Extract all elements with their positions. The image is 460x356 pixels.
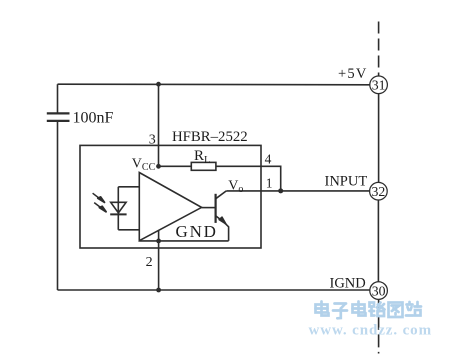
junction dots <box>156 82 283 293</box>
svg-text:GND: GND <box>176 222 218 241</box>
photodiode D1 bottom bracket <box>118 229 139 231</box>
capacitor C1 100nF <box>47 113 70 121</box>
wire top rail <box>58 83 370 86</box>
op-amp U1 body box HFBR-2522 <box>80 145 261 248</box>
char dian 2 <box>353 302 366 316</box>
wire left branch upper <box>57 84 59 113</box>
op-amp U1 triangle <box>139 173 201 241</box>
wire Vo/INPUT <box>226 190 369 192</box>
char lu <box>370 303 385 317</box>
wire GND rail <box>139 240 228 242</box>
svg-text:1: 1 <box>266 175 273 190</box>
wire net 32-30 <box>377 200 379 282</box>
node gnd rail / pin2 <box>156 239 161 244</box>
svg-text:HFBR–2522: HFBR–2522 <box>172 129 248 145</box>
terminal 32 <box>370 182 388 200</box>
svg-text:30: 30 <box>372 283 386 298</box>
terminal 30 <box>370 282 388 300</box>
wire emitter to GND rail <box>224 223 228 241</box>
photodiode D1 triangle <box>111 202 126 213</box>
node pin4/pin1 <box>278 188 283 193</box>
transistor Q1 bar <box>215 194 217 223</box>
char zhan <box>406 302 421 316</box>
transistor Q1 emitter wire <box>216 216 224 222</box>
svg-text:VCC: VCC <box>132 156 156 173</box>
transistor Q1 emitter arrowhead <box>219 217 226 224</box>
wire pin2 vertical <box>158 241 160 290</box>
wire net 31 dashed above <box>378 22 380 77</box>
wire pin3 vertical <box>158 84 160 166</box>
svg-text:100nF: 100nF <box>73 109 114 126</box>
terminal 31 <box>370 76 388 94</box>
svg-text:RL: RL <box>194 148 210 166</box>
svg-text:IGND: IGND <box>330 275 366 291</box>
svg-text:3: 3 <box>149 133 156 148</box>
light arrow 2 <box>94 203 102 209</box>
svg-text:+5V: +5V <box>338 66 368 82</box>
photodiode D1 cathode bar <box>110 213 126 215</box>
wire net 30 dashed below <box>378 299 380 353</box>
svg-text:2: 2 <box>146 255 153 270</box>
char dian 1 <box>316 302 329 316</box>
wire net 31-32 <box>378 94 380 183</box>
photodiode D1 top bracket <box>118 186 139 188</box>
svg-text:4: 4 <box>265 151 272 166</box>
svg-text:Vo: Vo <box>228 179 243 195</box>
svg-text:www. cndzz. com: www. cndzz. com <box>309 323 432 339</box>
wire bottom rail <box>58 289 370 291</box>
watermark chinese characters <box>316 302 422 319</box>
wire Vcc to RL <box>159 165 192 167</box>
char tu <box>389 303 403 318</box>
light arrow 1 <box>93 193 226 224</box>
svg-text:INPUT: INPUT <box>325 174 368 190</box>
svg-text:31: 31 <box>372 78 386 93</box>
transistor Q1 base wire <box>202 207 216 209</box>
node Vcc <box>156 164 161 169</box>
wire left branch lower <box>57 121 59 290</box>
wire amp gnd stub <box>158 230 160 241</box>
transistor Q1 collector wire <box>216 191 227 199</box>
node bottom rail / pin2 <box>156 288 161 293</box>
node top rail / pin3 <box>156 82 161 87</box>
char zi <box>333 304 347 319</box>
svg-text:32: 32 <box>372 184 386 199</box>
resistor RL <box>191 162 216 170</box>
photodiode D1 wire <box>117 187 119 230</box>
wire RL to pin4 corner <box>216 166 281 191</box>
